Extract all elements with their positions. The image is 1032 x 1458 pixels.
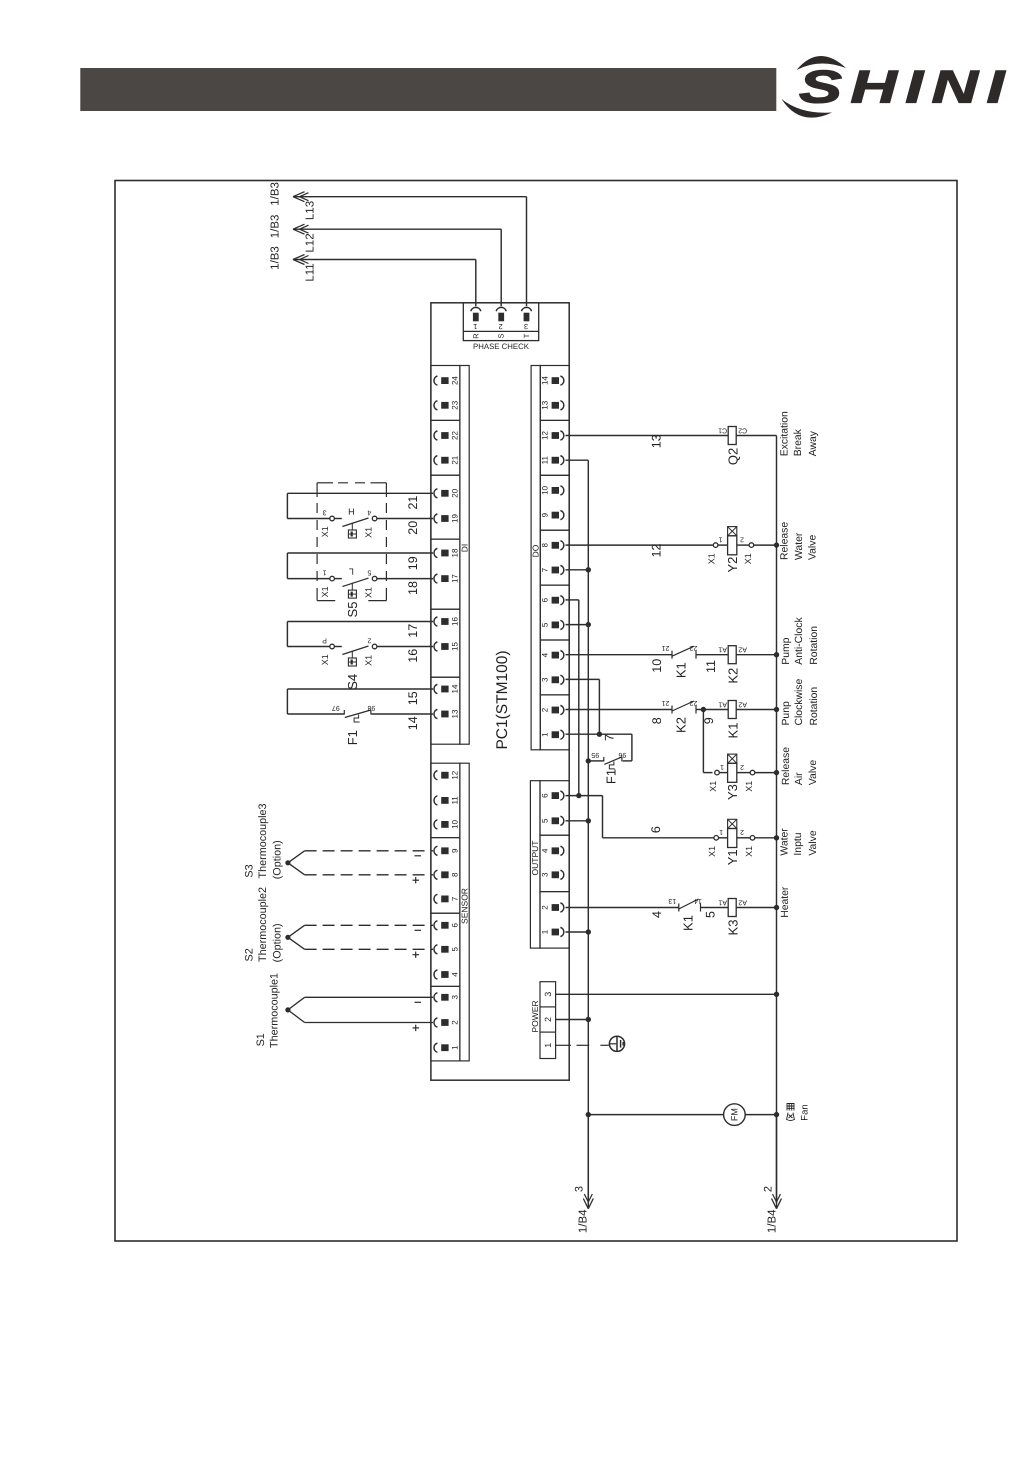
svg-text:Q2: Q2 [726, 448, 741, 465]
thermocouple S2 (option) [285, 935, 290, 940]
svg-text:11: 11 [704, 660, 718, 673]
svg-text:13: 13 [451, 709, 460, 718]
svg-text:X1: X1 [744, 781, 754, 792]
PHASE CHECK block [463, 303, 538, 341]
wire POWER-2 to rail [556, 1019, 589, 1021]
DI terminal 16 [434, 617, 437, 626]
svg-text:2: 2 [541, 707, 550, 712]
svg-text:Valve: Valve [808, 760, 819, 785]
svg-text:18: 18 [406, 581, 420, 595]
svg-text:X1: X1 [708, 781, 718, 792]
svg-text:14: 14 [451, 684, 460, 693]
svg-text:1: 1 [473, 322, 477, 331]
SENSOR terminal 12 [434, 771, 437, 780]
svg-text:2: 2 [451, 1020, 460, 1025]
DO terminal 2 [552, 707, 559, 714]
svg-text:Anti-Clock: Anti-Clock [794, 617, 805, 665]
OUTPUT terminal 6 [552, 792, 559, 799]
svg-text:1: 1 [541, 929, 550, 934]
svg-text:Punp: Punp [781, 701, 792, 725]
svg-text:X1: X1 [743, 553, 753, 564]
wire L12 from 1/B3 [293, 228, 501, 230]
wire L13 from 1/B3 [293, 196, 527, 198]
valve Y3 [715, 770, 720, 775]
svg-text:H: H [348, 507, 355, 517]
DI terminal 15 [434, 642, 437, 651]
svg-text:14: 14 [694, 897, 702, 904]
svg-text:Excitation: Excitation [780, 411, 791, 456]
DO terminal 11 [552, 457, 559, 464]
rung Y3 - release air valve [702, 710, 704, 773]
svg-text:24: 24 [451, 376, 460, 385]
svg-text:SHINI: SHINI [799, 61, 1013, 113]
SENSOR terminal 1 [434, 1043, 437, 1052]
svg-text:6: 6 [541, 597, 550, 602]
coil Q2 [728, 427, 736, 445]
DO terminal 14 [552, 377, 559, 384]
svg-text:1: 1 [323, 569, 327, 576]
svg-text:K2: K2 [726, 668, 741, 684]
svg-text:Rotation: Rotation [809, 626, 820, 665]
wire DO-5 to rail junction [566, 624, 589, 626]
svg-text:Release: Release [780, 522, 791, 560]
DI terminal 22 [434, 431, 437, 440]
svg-text:DI: DI [460, 544, 470, 553]
svg-text:S1: S1 [255, 1033, 267, 1046]
svg-text:S: S [497, 333, 506, 338]
svg-text:12: 12 [650, 544, 664, 558]
svg-text:22: 22 [451, 431, 460, 440]
fan rung [588, 1114, 724, 1116]
svg-text:S4: S4 [345, 674, 360, 690]
svg-text:Water: Water [794, 532, 805, 560]
svg-text:8: 8 [650, 717, 664, 724]
DO terminal 5 [552, 622, 559, 629]
fuse/overload contact F1 97-98 [287, 713, 344, 715]
svg-text:Release: Release [781, 747, 792, 785]
SENSOR terminal 3 [434, 993, 437, 1002]
wire OUTPUT-1 to rail [566, 931, 589, 933]
svg-text:PHASE CHECK: PHASE CHECK [473, 342, 530, 351]
svg-text:S5: S5 [345, 602, 360, 618]
svg-text:23: 23 [451, 400, 460, 409]
svg-text:Air: Air [794, 772, 805, 785]
svg-text:10: 10 [650, 659, 664, 673]
svg-text:13: 13 [668, 897, 676, 904]
svg-text:16: 16 [406, 649, 420, 663]
svg-text:10: 10 [451, 819, 460, 828]
svg-text:14: 14 [541, 376, 550, 385]
wire from OUTPUT-6, rung 6 - Y1 [566, 795, 603, 797]
thermocouple S1 [285, 1007, 290, 1012]
svg-text:17: 17 [451, 574, 460, 583]
svg-text:13: 13 [650, 434, 664, 448]
svg-text:3: 3 [524, 322, 528, 331]
svg-text:7: 7 [602, 734, 616, 741]
svg-text:2: 2 [367, 637, 371, 644]
svg-text:S3: S3 [244, 864, 256, 877]
svg-text:19: 19 [406, 556, 420, 570]
svg-text:21: 21 [406, 496, 420, 510]
svg-text:Valve: Valve [808, 830, 819, 855]
overload contact F1 95-96 [623, 760, 632, 762]
svg-text:K2: K2 [674, 717, 689, 733]
DO terminal 7 [552, 567, 559, 574]
DI terminal 14 [434, 684, 437, 693]
svg-text:2: 2 [762, 1186, 774, 1192]
svg-text:1/B4: 1/B4 [578, 1209, 590, 1233]
coil K1 [728, 701, 736, 719]
wire 21 to DI-20 [287, 492, 433, 494]
svg-text:14: 14 [406, 716, 420, 730]
valve Y2 [713, 543, 718, 548]
svg-text:F1: F1 [345, 730, 360, 745]
svg-text:1: 1 [719, 828, 723, 835]
svg-text:Valve: Valve [808, 535, 819, 560]
svg-text:15: 15 [451, 642, 460, 651]
DO terminal 3 [552, 676, 559, 683]
svg-text:Fan: Fan [800, 1104, 811, 1120]
svg-text:4: 4 [367, 509, 371, 516]
svg-text:5: 5 [541, 818, 550, 823]
svg-text:8: 8 [541, 543, 550, 548]
svg-text:Thermocouple2: Thermocouple2 [257, 887, 269, 962]
svg-text:Pump: Pump [781, 637, 792, 664]
svg-text:S2: S2 [244, 948, 256, 961]
svg-text:(Option): (Option) [272, 923, 284, 962]
svg-text:2: 2 [740, 763, 744, 770]
wire 8 rung - K1 coil [566, 709, 673, 711]
svg-text:K3: K3 [726, 920, 741, 936]
outer drawing frame [115, 181, 957, 1242]
wire 12 rung - Y2 [566, 544, 713, 546]
svg-text:Thermocouple1: Thermocouple1 [268, 973, 280, 1048]
DO terminal 9 [552, 512, 559, 519]
fan motor FM [724, 1104, 746, 1126]
OUTPUT terminal 1 [552, 929, 559, 936]
svg-text:2: 2 [541, 905, 550, 910]
svg-text:A2: A2 [738, 701, 747, 708]
SENSOR terminal 2 [434, 1018, 437, 1027]
svg-text:96: 96 [618, 751, 626, 758]
svg-text:L11: L11 [305, 263, 317, 281]
svg-text:P: P [322, 637, 327, 644]
svg-text:5: 5 [367, 569, 371, 576]
svg-text:18: 18 [451, 548, 460, 557]
wire DO-3 down [566, 678, 600, 680]
svg-text:C2: C2 [738, 427, 747, 434]
SENSOR terminal 9 [434, 846, 437, 855]
SENSOR terminal 5 [434, 945, 437, 954]
thermocouple S3 (option) [285, 860, 290, 865]
svg-text:7: 7 [451, 896, 460, 901]
wire 15 to DI-14 [287, 688, 433, 690]
svg-text:K1: K1 [726, 723, 741, 739]
SENSOR terminal 11 [434, 796, 437, 805]
svg-text:Y1: Y1 [725, 849, 740, 865]
svg-text:L12: L12 [305, 233, 317, 252]
svg-text:2: 2 [499, 322, 503, 331]
svg-text:A1: A1 [718, 701, 727, 708]
valve Y1 [714, 836, 719, 841]
DI terminal strip [431, 366, 460, 421]
svg-text:4: 4 [541, 848, 550, 853]
svg-text:97: 97 [332, 704, 340, 711]
svg-text:A1: A1 [718, 646, 727, 653]
wire 10 rung - K2 coil [566, 654, 673, 656]
svg-text:5: 5 [541, 622, 550, 627]
svg-text:4: 4 [451, 972, 460, 977]
svg-text:22: 22 [690, 699, 698, 706]
svg-text:2: 2 [543, 1017, 553, 1022]
svg-text:3: 3 [543, 992, 553, 997]
logo swoosh bottom [782, 99, 833, 118]
switch S5 position L [287, 578, 329, 580]
svg-text:1/B3: 1/B3 [270, 215, 282, 239]
OUTPUT terminal 3 [552, 871, 559, 878]
svg-text:1/B4: 1/B4 [767, 1209, 779, 1233]
svg-text:DO: DO [531, 544, 541, 557]
svg-text:Away: Away [808, 430, 819, 456]
svg-text:SENSOR: SENSOR [460, 888, 470, 924]
svg-text:20: 20 [451, 488, 460, 497]
contact K1 21-22 [671, 651, 673, 659]
svg-text:T: T [522, 333, 531, 338]
DI terminal 13 [434, 709, 437, 718]
svg-text:X1: X1 [363, 527, 373, 538]
svg-text:X1: X1 [707, 846, 717, 857]
svg-text:1/B3: 1/B3 [270, 182, 282, 206]
svg-text:3: 3 [573, 1186, 585, 1192]
SENSOR terminal 6 [434, 921, 437, 930]
svg-text:R: R [471, 333, 480, 339]
svg-text:(Option): (Option) [272, 840, 284, 879]
svg-text:Y2: Y2 [725, 557, 740, 573]
wire 7 from DO-1 through F1 95-96 [566, 733, 632, 735]
svg-text:X1: X1 [744, 846, 754, 857]
wire 4 rung - K3 heater [566, 907, 679, 909]
contact K2 21-22 [671, 706, 673, 714]
wire DO-7 to rail junction [566, 569, 589, 571]
svg-text:7: 7 [541, 567, 550, 572]
svg-text:6: 6 [649, 826, 663, 833]
wire POWER-3 to bus [556, 993, 777, 995]
svg-text:9: 9 [451, 848, 460, 853]
svg-text:10: 10 [541, 485, 550, 494]
svg-text:22: 22 [690, 644, 698, 651]
svg-text:X1: X1 [363, 655, 373, 666]
svg-text:Break: Break [793, 428, 804, 456]
svg-text:17: 17 [406, 624, 420, 638]
svg-text:11: 11 [541, 456, 550, 465]
DI terminal 21 [434, 456, 437, 465]
svg-text:6: 6 [451, 923, 460, 928]
svg-text:5: 5 [451, 947, 460, 952]
wire L11 from 1/B3 [293, 259, 476, 261]
svg-text:Thermocouple3: Thermocouple3 [257, 803, 269, 878]
svg-text:L: L [349, 567, 354, 577]
DO terminal 12 [552, 432, 559, 439]
OUTPUT terminal 5 [552, 817, 559, 824]
svg-text:1: 1 [543, 1043, 553, 1048]
protective earth symbol [609, 1036, 624, 1051]
switch S4 [287, 646, 329, 648]
svg-text:1: 1 [541, 732, 550, 737]
DI terminal 18 [434, 548, 437, 557]
POWER terminal block [540, 982, 556, 1059]
S5 selector dashed enclosure [316, 483, 318, 497]
controller PC1(STM100) outline [431, 303, 569, 1080]
phase terminal 3 T [522, 307, 532, 311]
svg-text:A2: A2 [738, 899, 747, 906]
wire 19 to DI-18 [287, 552, 433, 554]
header bar [80, 68, 776, 111]
right supply bus [776, 436, 778, 1204]
wire 13 rung - Q2 [566, 435, 729, 437]
DI terminal 23 [434, 401, 437, 410]
svg-text:Heater: Heater [780, 886, 791, 918]
svg-text:Clockwise: Clockwise [794, 679, 805, 726]
wire DO-6 down [566, 599, 579, 601]
svg-text:F1: F1 [604, 769, 619, 784]
svg-text:5: 5 [704, 911, 718, 918]
outgoing arrow 2 to 1/B4 [776, 1115, 778, 1209]
DO terminal 10 [552, 487, 559, 494]
phase terminal 2 S [496, 307, 506, 311]
OUTPUT terminal strip [540, 781, 569, 836]
svg-text:11: 11 [451, 796, 460, 805]
svg-text:1: 1 [720, 763, 724, 770]
svg-text:21: 21 [451, 455, 460, 464]
svg-text:6: 6 [541, 793, 550, 798]
svg-text:X1: X1 [320, 526, 330, 537]
DO terminal 6 [552, 597, 559, 604]
svg-text:Inptu: Inptu [793, 832, 804, 855]
coil K3 [728, 899, 736, 917]
DI terminal 19 [434, 514, 437, 523]
svg-text:FM: FM [729, 1108, 739, 1121]
DO terminal 8 [552, 542, 559, 549]
contact K1 13-14 [678, 904, 680, 912]
wire OUTPUT-5 to rail [566, 820, 589, 822]
DI terminal 17 [434, 574, 437, 583]
svg-text:9: 9 [541, 512, 550, 517]
DI terminal 20 [434, 489, 437, 498]
SENSOR terminal 4 [434, 970, 437, 979]
svg-text:3: 3 [323, 509, 327, 516]
svg-text:X1: X1 [363, 587, 373, 598]
svg-text:3: 3 [541, 872, 550, 877]
svg-text:OUTPUT: OUTPUT [530, 841, 540, 876]
coil K2 [728, 646, 736, 664]
svg-text:21: 21 [662, 644, 670, 651]
svg-text:Rotation: Rotation [809, 687, 820, 726]
svg-text:1: 1 [451, 1045, 460, 1050]
svg-text:20: 20 [406, 521, 420, 535]
svg-text:8: 8 [451, 872, 460, 877]
svg-text:98: 98 [367, 704, 375, 711]
DO terminal 1 [552, 731, 559, 738]
phase terminal 1 R [471, 307, 481, 311]
logo swoosh top [797, 56, 847, 70]
SENSOR terminal 7 [434, 894, 437, 903]
svg-text:2: 2 [740, 535, 744, 542]
DO terminal strip [540, 366, 569, 421]
label fan chinese [787, 1104, 795, 1121]
DO terminal 4 [552, 652, 559, 659]
svg-text:13: 13 [541, 400, 550, 409]
outgoing arrow 3 to 1/B4 [587, 1115, 589, 1209]
OUTPUT terminal 2 [552, 904, 559, 911]
svg-text:4: 4 [541, 652, 550, 657]
SENSOR terminal strip [431, 763, 460, 837]
svg-text:1: 1 [719, 535, 723, 542]
svg-text:4: 4 [650, 911, 664, 918]
svg-text:19: 19 [451, 514, 460, 523]
svg-text:1/B3: 1/B3 [270, 246, 282, 270]
svg-text:15: 15 [406, 691, 420, 705]
svg-text:2: 2 [740, 828, 744, 835]
DO terminal 13 [552, 402, 559, 409]
svg-text:16: 16 [451, 617, 460, 626]
svg-text:X1: X1 [320, 586, 330, 597]
svg-text:L13: L13 [305, 201, 317, 220]
OUTPUT terminal 4 [552, 847, 559, 854]
SENSOR terminal 10 [434, 820, 437, 829]
svg-text:A1: A1 [718, 899, 727, 906]
svg-text:C1: C1 [718, 427, 727, 434]
wire POWER-1 to earth [556, 1044, 571, 1046]
svg-text:21: 21 [662, 699, 670, 706]
wire 17 to DI-16 [287, 621, 433, 623]
svg-text:Water: Water [780, 828, 791, 856]
svg-text:3: 3 [451, 995, 460, 1000]
svg-text:95: 95 [591, 751, 599, 758]
svg-text:K1: K1 [680, 915, 695, 931]
svg-text:X1: X1 [707, 553, 717, 564]
svg-text:K1: K1 [674, 662, 689, 678]
svg-text:9: 9 [702, 717, 716, 724]
svg-text:X1: X1 [320, 654, 330, 665]
svg-text:12: 12 [451, 770, 460, 779]
left common rail [587, 460, 589, 1203]
wire from DO-11 to rail [566, 459, 589, 461]
svg-text:Y3: Y3 [725, 784, 740, 800]
svg-text:12: 12 [541, 431, 550, 440]
DI terminal 24 [434, 376, 437, 385]
svg-text:3: 3 [541, 677, 550, 682]
svg-text:POWER: POWER [530, 1000, 540, 1032]
svg-text:A2: A2 [738, 646, 747, 653]
svg-text:PC1(STM100): PC1(STM100) [494, 650, 511, 749]
switch S5 position H [287, 518, 329, 520]
SENSOR terminal 8 [434, 870, 437, 879]
